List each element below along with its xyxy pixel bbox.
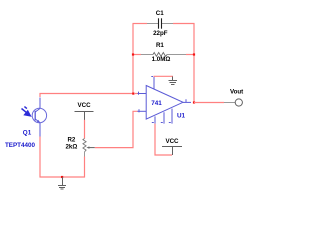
pin 7 top stub [151, 76, 154, 89]
svg-text:Vout: Vout [230, 88, 243, 95]
node: ground junction [61, 176, 63, 178]
wire: R1 branch right stub [186, 54, 194, 56]
power VCC (for op-amp) [162, 147, 182, 156]
wire: output junction to terminal lead [194, 102, 224, 104]
power VCC (for R2) [75, 112, 94, 121]
svg-text:U1: U1 [177, 112, 186, 119]
capacitor C1 [147, 18, 173, 28]
node: junction R1 right [193, 53, 195, 55]
svg-text:1.0MΩ: 1.0MΩ [152, 56, 171, 63]
terminal Vout circle [235, 99, 242, 106]
wire: pin 1 down and right to VCC bar stem [155, 124, 172, 155]
light arrows into Q1 [22, 107, 31, 116]
svg-text:R2: R2 [67, 137, 75, 144]
potentiometer R2 [83, 139, 95, 157]
wire: pin 7 to ground [154, 75, 174, 77]
wire: feedback loop top C1 branch left [133, 23, 148, 25]
node: junction R1 left [132, 53, 134, 55]
pin 3 non-inverting input [137, 109, 146, 112]
wire: Q1 collector up and right to inverting-input junction [40, 94, 134, 98]
svg-text:C1: C1 [156, 10, 164, 17]
op-amp U1 (741) triangle [146, 86, 183, 120]
transistor Q1 phototransistor [32, 98, 46, 138]
svg-text:VCC: VCC [165, 138, 179, 145]
wire: R2 wiper right, up, to pin 3 [95, 111, 138, 147]
wire: feedback loop right vertical [193, 23, 195, 103]
pin 6 output [183, 99, 191, 102]
wire: junction to pin 2 [134, 93, 138, 95]
wire: feedback loop left vertical [132, 24, 134, 94]
svg-text:741: 741 [151, 100, 162, 107]
svg-text:TEPT4400: TEPT4400 [5, 142, 36, 149]
pin 1 offset null stub [152, 116, 155, 123]
wire: R2 bottom to bottom rail [84, 157, 86, 178]
node: output junction [193, 101, 195, 103]
resistor R1 [141, 53, 186, 57]
wire: bottom rail [40, 176, 86, 178]
pin 5 offset null stub [161, 112, 164, 123]
svg-text:2kΩ: 2kΩ [65, 144, 77, 151]
wire: R1 branch left stub [133, 54, 141, 56]
svg-text:R1: R1 [156, 42, 164, 49]
svg-text:22pF: 22pF [153, 30, 168, 37]
wire: Q1 emitter down [39, 137, 41, 178]
pin 4 VEE stub [169, 109, 172, 124]
terminal Vout lead [224, 102, 235, 104]
svg-text:Q1: Q1 [23, 130, 32, 137]
pin 2 inverting input [137, 92, 146, 95]
wire: VCC to R2 top [84, 120, 86, 139]
svg-text:VCC: VCC [78, 102, 92, 109]
ground (bottom) [58, 177, 66, 189]
node: inverting input junction [132, 93, 134, 95]
ground (op-amp top) [168, 76, 177, 84]
wire: feedback loop top C1 branch right [173, 23, 195, 25]
